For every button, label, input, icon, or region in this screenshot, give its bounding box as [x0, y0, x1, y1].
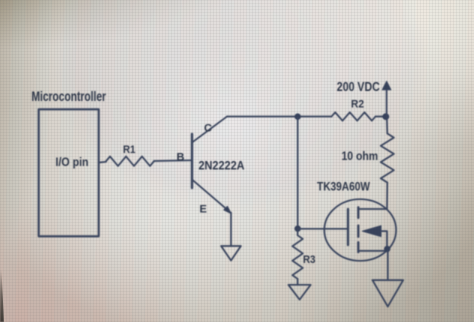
svg-text:Microcontroller: Microcontroller — [32, 88, 107, 104]
svg-text:I/O pin: I/O pin — [56, 157, 89, 169]
resistor R3 — [292, 229, 302, 285]
ground emitter — [221, 246, 241, 261]
svg-text:10 ohm: 10 ohm — [342, 149, 379, 163]
supply arrow 200 VDC — [382, 81, 391, 116]
resistor 10 ohm — [381, 134, 394, 183]
svg-text:2N2222A: 2N2222A — [199, 159, 245, 173]
junction gate node — [295, 225, 301, 231]
wire emitter to ground — [230, 213, 232, 247]
junction node A — [295, 113, 301, 119]
microcontroller box — [39, 109, 99, 236]
svg-text:TK39A60W: TK39A60W — [317, 180, 371, 194]
junction source node — [384, 246, 390, 252]
wire 10 ohm to drain — [358, 183, 387, 210]
svg-text:200 VDC: 200 VDC — [337, 80, 380, 94]
svg-text:R3: R3 — [303, 254, 316, 266]
svg-text:R2: R2 — [351, 99, 364, 111]
svg-text:C: C — [204, 123, 212, 135]
wire gate node to gate — [298, 228, 348, 230]
ground R3 — [288, 285, 310, 300]
mosfet Q2 TK39A60W — [324, 199, 396, 261]
resistor R2 — [332, 112, 376, 120]
svg-text:R1: R1 — [123, 144, 136, 156]
wire R2 to supply node — [376, 116, 386, 118]
wire collector to node A — [227, 116, 332, 118]
wire node A to gate node — [297, 117, 299, 229]
ground source — [372, 280, 403, 307]
wire I/O pin to R1 — [99, 161, 106, 164]
wire supply node to 10 ohm resistor — [386, 117, 389, 134]
transistor Q1 2N2222A — [192, 117, 231, 214]
svg-text:B: B — [177, 152, 185, 164]
junction supply node — [382, 113, 389, 120]
svg-text:E: E — [200, 204, 207, 216]
wire source to ground — [387, 251, 389, 280]
resistor R1 — [106, 156, 154, 166]
wire R1 to base — [154, 159, 192, 162]
